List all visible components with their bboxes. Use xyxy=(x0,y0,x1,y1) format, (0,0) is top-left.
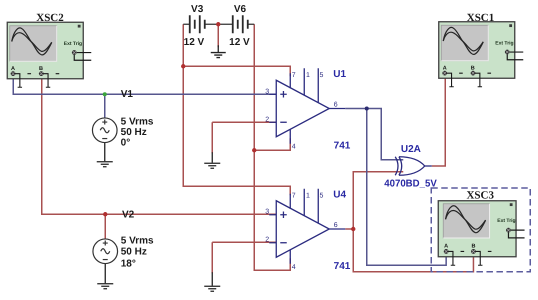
svg-text:V2: V2 xyxy=(122,210,135,221)
svg-text:V3: V3 xyxy=(191,4,204,15)
svg-text:7: 7 xyxy=(292,192,296,199)
svg-text:741: 741 xyxy=(334,261,351,272)
svg-text:5 Vrms: 5 Vrms xyxy=(121,235,154,246)
svg-text:3: 3 xyxy=(265,208,269,215)
svg-text:741: 741 xyxy=(334,140,351,151)
svg-text:7: 7 xyxy=(292,72,296,79)
svg-text:50 Hz: 50 Hz xyxy=(121,127,147,138)
svg-text:4: 4 xyxy=(292,144,296,151)
svg-text:XSC2: XSC2 xyxy=(36,12,64,24)
svg-text:B: B xyxy=(471,244,475,250)
svg-text:5: 5 xyxy=(319,192,323,199)
svg-text:A: A xyxy=(11,66,15,72)
svg-text:3: 3 xyxy=(265,88,269,95)
svg-text:4: 4 xyxy=(292,264,296,271)
svg-text:1: 1 xyxy=(306,72,310,79)
svg-text:B: B xyxy=(39,66,43,72)
svg-text:Ext Trig: Ext Trig xyxy=(64,41,82,47)
svg-text:6: 6 xyxy=(334,222,338,229)
svg-text:U4: U4 xyxy=(333,189,346,200)
svg-text:12 V: 12 V xyxy=(229,37,250,48)
svg-text:12 V: 12 V xyxy=(184,37,205,48)
svg-text:1: 1 xyxy=(306,192,310,199)
svg-text:2: 2 xyxy=(265,236,269,243)
svg-text:6: 6 xyxy=(334,102,338,109)
svg-text:18°: 18° xyxy=(121,259,136,270)
svg-text:A: A xyxy=(444,244,448,250)
svg-text:4070BD_5V: 4070BD_5V xyxy=(384,178,437,189)
svg-text:0°: 0° xyxy=(121,137,131,148)
svg-text:U2A: U2A xyxy=(401,144,421,155)
svg-text:Ext Trig: Ext Trig xyxy=(497,218,515,224)
svg-text:XSC1: XSC1 xyxy=(467,12,495,24)
svg-text:U1: U1 xyxy=(333,69,346,80)
svg-text:Ext Trig: Ext Trig xyxy=(495,40,513,46)
svg-text:5 Vrms: 5 Vrms xyxy=(121,116,154,127)
svg-text:A: A xyxy=(443,65,447,71)
svg-text:V1: V1 xyxy=(121,89,134,100)
svg-text:V6: V6 xyxy=(234,4,247,15)
svg-text:50 Hz: 50 Hz xyxy=(121,247,147,258)
svg-text:5: 5 xyxy=(319,72,323,79)
svg-text:XSC3: XSC3 xyxy=(466,190,494,202)
svg-text:B: B xyxy=(471,65,475,71)
svg-text:2: 2 xyxy=(265,116,269,123)
